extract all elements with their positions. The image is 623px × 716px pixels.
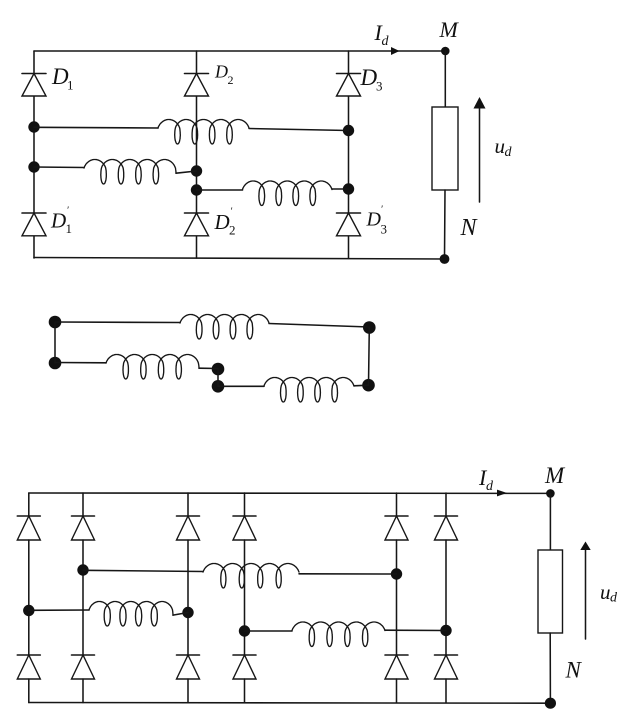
svg-text:′: ′	[381, 205, 384, 216]
svg-text:D: D	[214, 210, 230, 234]
svg-text:d: d	[382, 34, 390, 49]
svg-text:′: ′	[67, 206, 70, 217]
svg-text:d: d	[486, 479, 494, 494]
svg-text:d: d	[505, 145, 513, 160]
svg-text:M: M	[544, 463, 566, 488]
svg-text:D: D	[214, 62, 228, 82]
svg-text:u: u	[495, 134, 506, 158]
svg-text:3: 3	[381, 222, 388, 237]
svg-text:1: 1	[67, 78, 74, 93]
svg-text:N: N	[565, 658, 583, 683]
svg-text:2: 2	[228, 73, 234, 87]
svg-text:3: 3	[376, 79, 383, 94]
svg-text:N: N	[460, 215, 479, 241]
svg-text:1: 1	[66, 221, 73, 236]
svg-text:D: D	[50, 209, 66, 233]
svg-text:M: M	[439, 17, 460, 42]
svg-text:D: D	[360, 65, 378, 90]
svg-text:d: d	[610, 591, 618, 606]
svg-text:2: 2	[229, 223, 236, 238]
svg-text:′: ′	[230, 207, 233, 218]
svg-text:u: u	[600, 580, 611, 604]
svg-text:D: D	[366, 209, 382, 231]
